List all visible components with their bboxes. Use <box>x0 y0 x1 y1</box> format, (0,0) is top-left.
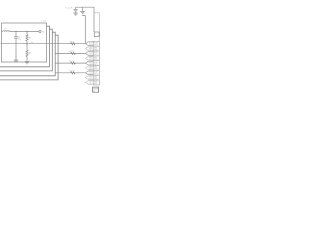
title block <box>93 87 99 92</box>
svg-text:GND: GND <box>89 76 93 78</box>
svg-text:OUT: OUT <box>89 78 92 80</box>
resistor R5 on row3 <box>70 62 75 64</box>
net flag row3b <box>85 66 93 70</box>
svg-text:1 of 4: 1 of 4 <box>41 21 47 23</box>
wire R2 upper lead <box>26 44 28 50</box>
svg-text:Vcc: Vcc <box>30 42 33 44</box>
bus wire W2 wrap <box>0 26 49 67</box>
svg-text:10u: 10u <box>18 39 21 41</box>
capacitor C1 <box>14 37 18 38</box>
svg-text:OUT4: OUT4 <box>94 74 98 76</box>
svg-text:OUT: OUT <box>89 81 92 83</box>
svg-text:VO4: VO4 <box>89 72 92 74</box>
wire sense tap <box>82 16 85 44</box>
wire row4 <box>55 72 85 74</box>
net flag row1 <box>85 42 93 46</box>
svg-text:OUT1: OUT1 <box>94 45 98 47</box>
svg-text:R6 10: R6 10 <box>69 71 74 73</box>
capacitor C2 <box>74 7 78 13</box>
svg-text:OUT: OUT <box>89 83 92 85</box>
svg-text:0.1uF: 0.1uF <box>66 8 73 10</box>
svg-text:R5 10: R5 10 <box>69 61 74 63</box>
net flag row4 <box>85 71 93 75</box>
svg-text:VO3: VO3 <box>89 62 92 64</box>
svg-text:L1: L1 <box>4 29 7 31</box>
svg-text:R1: R1 <box>29 37 31 39</box>
svg-text:RTN4: RTN4 <box>94 78 98 80</box>
ground at top right <box>80 12 85 14</box>
svg-text:SHLD: SHLD <box>94 81 99 83</box>
wire R1 lower lead <box>26 41 28 44</box>
svg-text:VOUT: VOUT <box>94 62 98 64</box>
wire top right rail <box>76 7 94 32</box>
bus wire W3 wrap <box>0 29 52 71</box>
svg-text:OUT: OUT <box>89 64 92 66</box>
svg-text:VOUT: VOUT <box>94 52 98 54</box>
resistor R1 <box>26 34 28 41</box>
connector cell texts <box>94 43 99 86</box>
svg-text:VOUT: VOUT <box>94 72 98 74</box>
svg-text:OUT: OUT <box>89 54 92 56</box>
svg-text:A1: A1 <box>93 90 95 93</box>
svg-text:VO1: VO1 <box>89 42 92 44</box>
bus wire W5 wrap <box>0 35 58 80</box>
ground under C2 <box>73 13 78 15</box>
connector label column <box>93 41 99 85</box>
svg-text:VOUT: VOUT <box>94 43 98 45</box>
svg-text:GND: GND <box>89 57 93 59</box>
svg-text:GND: GND <box>94 76 98 78</box>
wire R2 lower lead <box>26 57 28 62</box>
ground stub right <box>82 7 84 11</box>
title block line <box>93 88 99 90</box>
svg-text:R4 10: R4 10 <box>69 51 74 53</box>
wire C1 upper lead <box>15 31 17 36</box>
svg-text:OUT: OUT <box>89 69 92 71</box>
ground under R2 <box>25 62 30 64</box>
wire connector body edge <box>94 13 100 42</box>
svg-text:VO2: VO2 <box>89 52 92 54</box>
bus wire W4 wrap <box>0 32 55 76</box>
svg-text:OUT: OUT <box>89 44 92 46</box>
wire R1 upper lead <box>26 31 28 34</box>
net flag row4b <box>85 76 93 80</box>
resistor R3 on row1 <box>70 43 75 45</box>
resistor R6 on row4 <box>70 72 75 74</box>
wire top rail <box>10 30 39 32</box>
svg-text:R3 10: R3 10 <box>69 41 74 43</box>
wire mid rail Vcc <box>1 43 86 45</box>
node junction at R1 tap <box>26 31 27 32</box>
net flag row2b <box>85 56 93 60</box>
svg-text:RTN3: RTN3 <box>94 69 98 71</box>
pin box J1 <box>94 32 99 37</box>
ground under C1 <box>14 60 19 62</box>
svg-text:OUT: OUT <box>89 59 92 61</box>
svg-text:OUT3: OUT3 <box>94 64 98 66</box>
net flag row1b <box>85 47 93 51</box>
wire row3 <box>55 62 85 64</box>
inductor L1 <box>2 30 12 33</box>
net flag row3 <box>85 61 93 65</box>
svg-text:OUT: OUT <box>89 49 92 51</box>
node junction mid rail <box>26 43 27 44</box>
wire row2 <box>55 52 85 54</box>
wire C1 lower lead <box>15 38 17 59</box>
svg-text:GND: GND <box>89 47 93 49</box>
resistor R4 on row2 <box>70 52 75 54</box>
filter block outline (sheet box) <box>2 23 47 62</box>
svg-text:GND: GND <box>94 67 98 69</box>
svg-text:R2: R2 <box>29 53 31 55</box>
svg-text:Vin: Vin <box>42 31 45 33</box>
svg-text:RTN2: RTN2 <box>94 59 98 61</box>
svg-text:GND: GND <box>94 47 98 49</box>
svg-text:RTN1: RTN1 <box>94 49 98 51</box>
svg-text:GND: GND <box>94 57 98 59</box>
svg-text:GND: GND <box>89 67 93 69</box>
resistor R2 <box>26 50 28 57</box>
net flag row5 <box>85 81 93 85</box>
svg-text:OUT2: OUT2 <box>94 54 98 56</box>
node junction at C1 tap <box>15 31 16 32</box>
net flag row2 <box>85 52 93 56</box>
svg-text:OUT: OUT <box>89 73 92 75</box>
port circle PWR <box>39 30 41 32</box>
